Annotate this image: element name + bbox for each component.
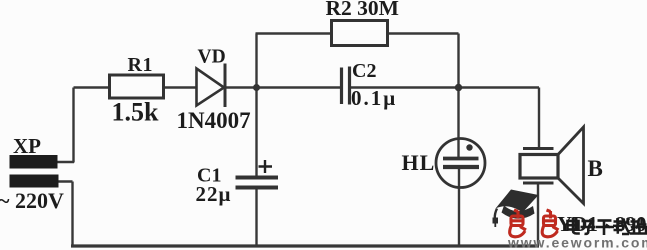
svg-text:R2 30M: R2 30M: [326, 0, 399, 20]
neon lamp HL lower electrode: [443, 165, 479, 169]
capacitor C2 right plate: [348, 67, 351, 105]
wire right vertical from top rail to mid junction: [457, 34, 459, 88]
speaker B top lead bar: [523, 147, 554, 150]
watermark graduation cap tassel: [495, 209, 497, 219]
wire top rail right of R2: [387, 32, 459, 34]
wire C2 to right corner: [351, 86, 540, 88]
wire left-bottom vertical down to bottom rail: [71, 182, 73, 247]
speaker B coil body: [520, 155, 558, 179]
wire left vertical from XP top prong up to middle row: [72, 88, 74, 163]
plug XP prong 1: [10, 155, 58, 169]
watermark text dian (electric): [568, 218, 580, 234]
label dash of model number: [596, 226, 614, 229]
svg-text:1N4007: 1N4007: [177, 108, 251, 133]
neon lamp HL circle: [436, 139, 485, 188]
resistor R1: [110, 75, 164, 98]
svg-text:B: B: [588, 156, 603, 181]
wire XP bottom prong right: [56, 180, 73, 182]
wire bottom rail: [71, 244, 539, 247]
svg-text:1.5k: 1.5k: [112, 98, 160, 127]
diode VD cathode bar: [224, 64, 227, 108]
svg-text:VD: VD: [198, 47, 226, 68]
junction node at diode output: [253, 84, 260, 91]
watermark text zi: [581, 221, 596, 234]
svg-text:R1: R1: [128, 54, 153, 76]
speaker B bottom lead bar: [523, 182, 554, 185]
wire R1 to diode: [163, 86, 196, 88]
wire top rail left of R2: [256, 32, 333, 34]
plug XP prong 2: [10, 175, 59, 188]
svg-text:XP: XP: [13, 134, 41, 158]
svg-text:22μ: 22μ: [196, 182, 232, 206]
capacitor C1 top plate: [236, 176, 279, 180]
diode VD triangle: [197, 69, 225, 106]
wire mid junction down to C1: [255, 88, 257, 177]
watermark graduation cap board: [496, 190, 539, 213]
junction node right of C2: [455, 84, 462, 91]
svg-text:0.1μ: 0.1μ: [351, 86, 397, 110]
watermark text xia: [598, 221, 612, 236]
capacitor C1 plus sign: [259, 160, 273, 173]
watermark text zai: [613, 218, 630, 234]
speaker B horn: [559, 127, 584, 204]
svg-text:C2: C2: [352, 60, 376, 82]
wire XP top prong to vertical: [56, 161, 74, 163]
wire vertical from mid junction up to top rail: [255, 34, 257, 88]
capacitor C1 bottom plate: [236, 186, 279, 190]
svg-text:www.eeworm.com: www.eeworm.com: [507, 235, 647, 250]
resistor R2: [332, 21, 388, 46]
wire mid junction down into HL lamp: [457, 88, 459, 158]
neon lamp HL upper electrode: [443, 157, 479, 161]
wire HL lamp bottom to rail: [458, 169, 460, 246]
wire diode to C2: [225, 86, 340, 88]
capacitor C2 left plate: [340, 68, 343, 105]
neon lamp HL gas dot: [466, 144, 472, 150]
watermark text zhan: [630, 218, 647, 234]
watermark graduation cap crown band: [502, 206, 535, 219]
watermark bug character 2 (red): [542, 210, 558, 237]
svg-text:HL: HL: [402, 150, 436, 175]
wire speaker bottom to rail: [537, 184, 539, 246]
wire C1 bottom to rail: [255, 189, 257, 246]
svg-text:~ 220V: ~ 220V: [0, 188, 64, 213]
wire speaker branch vertical top: [538, 88, 540, 149]
watermark bug character 1 (red): [510, 210, 526, 237]
wire middle row: left vertical to R1: [74, 86, 111, 88]
